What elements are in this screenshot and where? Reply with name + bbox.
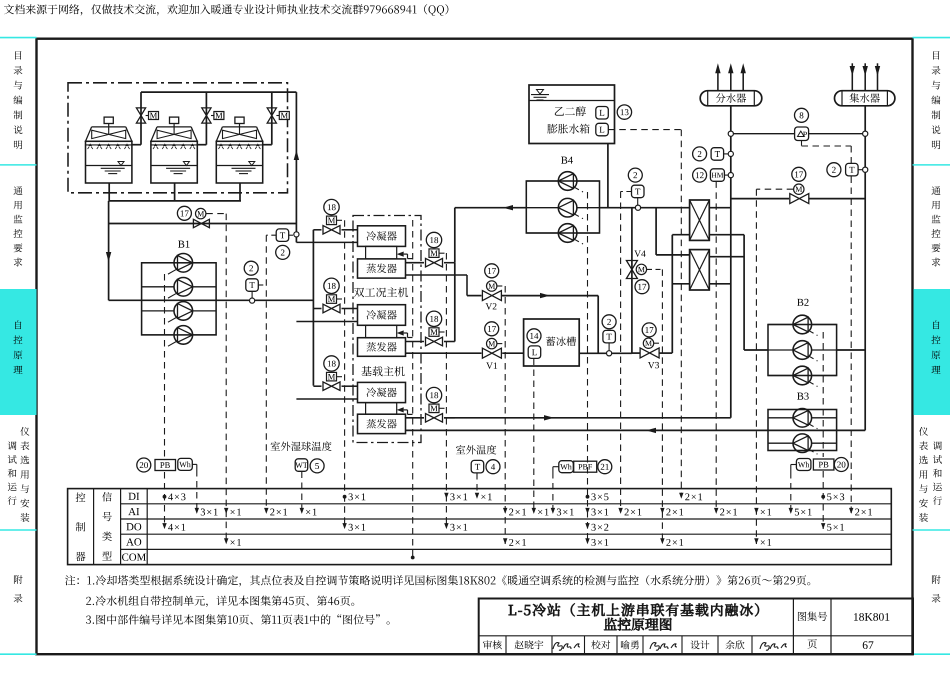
table markers DO row <box>162 523 844 531</box>
bypass valve signal tail <box>206 213 226 215</box>
cooling tower enclosure dash-dot box <box>68 83 288 193</box>
expansion tank drop pipe <box>607 144 609 208</box>
signal table outer frame <box>68 489 892 565</box>
chiller 1 condenser outlet pipe <box>296 241 357 243</box>
chilled supply riser <box>730 106 732 418</box>
signal table row lines <box>121 504 892 550</box>
signal trunk bypass valve <box>225 214 227 542</box>
tower inlet motor valve 3 <box>267 92 289 145</box>
B1 discharge temperature tag T2 <box>244 261 266 303</box>
HX2 right top port pipe <box>709 256 744 258</box>
left sidebar tab: instruments two-column <box>8 427 30 522</box>
pump B1-4 <box>142 326 217 347</box>
HX1 right top port to supply riser <box>709 207 731 209</box>
HX2 right bottom port to supply riser <box>709 283 731 285</box>
bypass valve signal tail to trunk <box>756 188 793 190</box>
B4 signal trunk <box>587 192 589 544</box>
expansion tank level signal dashed <box>608 130 681 495</box>
pump B4-2 <box>526 198 599 218</box>
page label <box>808 639 817 648</box>
cooling tower CT3 <box>216 117 262 183</box>
left sidebar tab: contents section <box>13 51 22 149</box>
right sidebar cyan top line <box>913 37 950 39</box>
right sidebar bottom cyan line <box>913 653 950 655</box>
examiner cell <box>483 640 502 649</box>
pump group B2 frame <box>768 325 837 376</box>
tower inlet elbow 2 <box>197 144 206 146</box>
outdoor temperature tag T 4 <box>471 460 500 474</box>
valve V3 with actuator <box>640 323 659 368</box>
chiller 3 condenser inlet valve 18 <box>313 356 357 391</box>
condenser water suction downcomer with arrow <box>106 201 111 300</box>
chiller 3 refrigerant arrow <box>397 407 413 414</box>
evap3 valve outlet pipe to supply riser <box>444 415 731 420</box>
tower outlet stubs <box>109 183 240 201</box>
return riser temperature tag <box>827 163 868 177</box>
designer cell <box>691 640 710 649</box>
chiller 1 evaporator valve 18 <box>406 232 455 267</box>
valve V2 with actuator <box>467 264 598 310</box>
supply riser heat meter tag <box>693 168 734 182</box>
table markers COM row <box>411 556 415 560</box>
right 18-valve signal trunk <box>445 253 447 527</box>
glycol suction riser from evap1 valve line <box>454 208 456 263</box>
outdoor temperature label <box>456 445 496 455</box>
pump B1-1 <box>142 253 217 274</box>
condenser inlet riser <box>312 230 314 386</box>
notes line 1 <box>65 575 810 586</box>
ice tank outlet temperature tag <box>602 315 616 356</box>
tower bypass pipe <box>109 223 297 225</box>
chiller COM signal trunk <box>412 220 414 556</box>
B2 discharge pipe <box>837 349 866 351</box>
pump group B2 label <box>797 299 808 306</box>
pump B2-1 <box>768 315 837 335</box>
controller column label <box>76 493 86 562</box>
tower outlet header pipe <box>109 200 241 202</box>
chiller 1 connector <box>366 246 397 259</box>
pump B3-1 <box>768 409 837 429</box>
glycol main suction arrow end <box>455 205 527 210</box>
B1 condenser water main <box>109 299 314 301</box>
secondary suction riser to B2 <box>744 235 768 350</box>
notes line 2 <box>86 596 354 607</box>
right sidebar tab: instruments two-column <box>919 427 942 522</box>
title block frame <box>479 599 913 655</box>
chiller 2 evaporator valve 18 <box>406 311 455 346</box>
distributor outgoing arrows <box>715 63 746 90</box>
distributor header <box>700 91 762 106</box>
wet bulb signal trunk <box>301 472 303 513</box>
right sidebar tab: contents section <box>931 51 940 149</box>
header watermark text <box>4 4 448 16</box>
ice tank level signal trunk <box>533 359 535 512</box>
title block signature row cells <box>506 636 752 654</box>
pump group B4 frame <box>526 181 599 233</box>
pump B4-1 <box>526 172 599 192</box>
checker signature <box>650 643 677 651</box>
chiller 2 condenser box <box>358 305 406 326</box>
pump group B3 label <box>797 393 809 400</box>
chilled tags signal trunk <box>552 472 554 512</box>
chiller 2 refrigerant arrow <box>397 330 413 337</box>
chiller 1 evaporator box <box>358 259 406 278</box>
HX1 left bottom port pipe <box>672 234 689 236</box>
B2B3 tags signal trunk <box>790 472 792 512</box>
atlas number value <box>854 613 889 621</box>
outdoor temp signal trunk <box>476 473 478 497</box>
pump B3-2 <box>768 434 837 454</box>
chiller 3 evaporator valve 18 <box>406 387 455 422</box>
chiller 1 condenser inlet valve 18 <box>313 199 357 234</box>
tower return riser with up arrow <box>294 92 299 242</box>
B1 signal trunk dashed <box>164 274 166 458</box>
heat meter signal trunk <box>715 181 717 512</box>
V3 signal tail <box>654 342 662 344</box>
valve V1 with actuator <box>481 322 502 369</box>
dP sensor 8 <box>795 108 809 140</box>
signal table column lines <box>94 489 148 565</box>
pump group B1 label <box>178 241 189 248</box>
glycol expansion tank <box>529 85 615 144</box>
B2B3 Wh PB tags <box>791 458 849 473</box>
left sidebar divider 1 <box>0 164 37 166</box>
signal row labels <box>122 493 146 561</box>
pump B1-2 <box>142 278 217 299</box>
pipe V1 to ice tank <box>502 352 523 354</box>
tower top header pipe <box>141 91 296 93</box>
chilled Wh PBF tags <box>553 460 612 474</box>
ice storage tank <box>524 319 580 366</box>
valve V4 with actuator <box>626 250 649 293</box>
glycol branch riser to HX2 top <box>656 208 690 255</box>
V1 feed line from evap2 bottom port <box>406 352 481 354</box>
dual-duty chiller label <box>354 287 408 297</box>
glycol tag signal trunk <box>620 192 622 513</box>
table markers AI row <box>195 508 872 516</box>
chiller 2 condenser outlet pipe <box>296 321 357 323</box>
cooling tower CT1 <box>86 117 132 183</box>
examiner signature <box>553 643 580 651</box>
left sidebar tab: appendix <box>14 575 23 602</box>
chiller 3 connector <box>366 403 397 415</box>
wet bulb tag WT 5 <box>295 459 324 473</box>
chiller 1 refrigerant arrow <box>397 252 413 259</box>
title block dividers <box>479 599 913 655</box>
heat exchanger HX1 <box>690 200 710 240</box>
chiller 3 condenser outlet pipe <box>296 398 357 400</box>
tower inlet motor valve 2 <box>202 92 224 145</box>
pump group B1 frame <box>142 263 217 335</box>
chiller 2 connector <box>366 325 397 337</box>
header differential pressure line <box>728 131 868 136</box>
right sidebar highlighted tab: control principle <box>914 289 950 415</box>
tower bypass valve 17 <box>177 206 209 227</box>
left sidebar highlighted tab: control principle <box>0 289 37 415</box>
V3V4 signal trunk <box>661 269 663 544</box>
table markers AO row <box>224 538 771 546</box>
pump group B4 label <box>561 157 573 164</box>
V4 bypass pipe vertical <box>631 208 633 354</box>
pump B4-3 <box>526 224 599 244</box>
V3 pipe segments <box>632 352 672 354</box>
evap3 bottom port pipe to B3 <box>406 428 866 433</box>
collector incoming arrows <box>850 63 881 90</box>
left sidebar cyan top line <box>0 37 37 39</box>
drawing title text <box>509 603 759 630</box>
tower inlet motor valve 1 <box>136 92 158 145</box>
right sidebar tab: general monitoring <box>931 186 940 266</box>
glycol main temperature tag <box>621 168 644 210</box>
left 18-valve signal trunk <box>344 220 346 527</box>
V1/V2 signal trunk <box>497 286 505 544</box>
atlas number label <box>798 611 827 621</box>
chiller 3 condenser box <box>358 382 406 402</box>
left sidebar bottom cyan line <box>0 653 37 655</box>
header bypass pipe with valve 17 <box>731 167 865 203</box>
left sidebar divider 2 <box>0 529 37 531</box>
dP signal dashed <box>802 141 852 513</box>
glycol main B4 to HX <box>600 207 690 209</box>
collector header <box>835 91 895 106</box>
pump B2-2 <box>768 341 837 361</box>
page number <box>863 641 874 649</box>
tower inlet elbow 1 <box>132 144 141 146</box>
notes line 3 <box>86 614 390 624</box>
chiller 3 evaporator box <box>358 414 406 433</box>
HX2 left bottom port pipe <box>672 283 689 285</box>
chiller 2 condenser inlet valve 18 <box>313 278 357 313</box>
cooling tower CT2 <box>151 117 197 183</box>
V4 signal tail <box>647 268 662 270</box>
designer signature <box>760 643 787 651</box>
V2 bypass drop to chilled main <box>597 296 599 354</box>
heat exchanger HX2 <box>690 250 710 290</box>
right sidebar divider 2 <box>913 529 950 531</box>
chilled return riser <box>864 106 866 431</box>
ice tank outlet pipe <box>579 352 632 354</box>
checker cell <box>591 640 610 649</box>
wet bulb temperature label <box>271 441 332 451</box>
base-load chiller label <box>361 366 404 376</box>
B2B3 signal trunk <box>822 332 824 529</box>
evap1 bottom port pipe to V2 riser <box>406 275 468 296</box>
B1 kWh PB tags <box>137 458 197 512</box>
chillers dash-dot enclosure <box>353 216 421 443</box>
signal type column label <box>102 492 112 560</box>
HX1 right bottom port pipe <box>709 234 744 236</box>
condenser outlet riser temperature tag <box>266 229 299 260</box>
table markers DI row <box>163 493 845 501</box>
pump B1-3 <box>142 302 217 323</box>
chiller 1 condenser box <box>358 226 406 247</box>
left sidebar tab: general monitoring <box>13 186 22 266</box>
pump group B3 frame <box>768 410 837 451</box>
right sidebar divider 1 <box>913 164 950 166</box>
tower inlet elbow 3 <box>263 144 272 146</box>
pump B2-3 <box>768 366 837 386</box>
right sidebar tab: appendix <box>932 575 941 602</box>
expansion tank level circle 13 <box>617 105 631 119</box>
chiller 2 evaporator box <box>358 338 406 357</box>
V3 outlet riser to HX2 <box>671 235 673 353</box>
supply riser temperature tag <box>693 147 734 161</box>
temperature tags signal trunk <box>265 235 267 512</box>
glycol suction riser lower to evap2 valve line <box>454 263 456 342</box>
